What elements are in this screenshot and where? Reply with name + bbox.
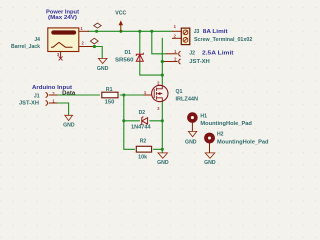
svg-text:Q1: Q1 [176, 89, 183, 95]
svg-text:150: 150 [105, 99, 115, 105]
svg-text:Data: Data [62, 91, 75, 97]
svg-text:IRLZ44N: IRLZ44N [176, 97, 199, 103]
svg-text:D2: D2 [139, 110, 146, 116]
svg-text:VCC: VCC [115, 10, 126, 16]
svg-text:2: 2 [82, 41, 85, 46]
svg-text:MountingHole_Pad: MountingHole_Pad [200, 121, 252, 127]
svg-text:GND: GND [157, 160, 169, 166]
svg-text:JST-XH: JST-XH [19, 101, 39, 107]
svg-text:2: 2 [174, 57, 177, 62]
svg-text:J4: J4 [34, 37, 40, 43]
svg-text:J1: J1 [34, 94, 40, 100]
svg-text:R1: R1 [106, 87, 113, 93]
svg-text:GND: GND [97, 66, 109, 72]
svg-text:1: 1 [144, 90, 147, 95]
svg-text:Barrel_Jack: Barrel_Jack [11, 44, 40, 50]
svg-text:GND: GND [185, 140, 197, 146]
svg-text:R2: R2 [140, 138, 147, 144]
svg-text:J3: J3 [194, 29, 200, 35]
svg-text:1: 1 [174, 49, 177, 54]
svg-text:3: 3 [57, 52, 60, 57]
svg-text:1: 1 [174, 24, 177, 29]
svg-text:10k: 10k [138, 154, 147, 160]
svg-text:D1: D1 [125, 50, 132, 56]
svg-text:H2: H2 [217, 132, 224, 138]
svg-text:2: 2 [174, 34, 177, 39]
svg-text:1N4744: 1N4744 [131, 124, 151, 130]
svg-text:(Max 24V): (Max 24V) [48, 15, 77, 21]
svg-text:SR560: SR560 [115, 58, 134, 64]
svg-text:MountingHole_Pad: MountingHole_Pad [217, 139, 269, 145]
svg-text:1: 1 [80, 26, 83, 31]
svg-text:8A Limit: 8A Limit [203, 29, 228, 35]
svg-text:3: 3 [157, 106, 160, 111]
svg-text:H1: H1 [200, 114, 207, 120]
svg-text:GND: GND [204, 160, 216, 166]
svg-text:Screw_Terminal_01x02: Screw_Terminal_01x02 [194, 37, 252, 43]
svg-text:2.5A Limit: 2.5A Limit [202, 51, 234, 57]
svg-text:GND: GND [63, 123, 75, 129]
svg-text:J2: J2 [189, 51, 195, 57]
svg-text:JST-XH: JST-XH [189, 59, 210, 65]
